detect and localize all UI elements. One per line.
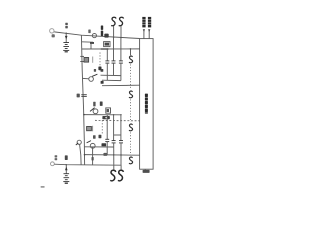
terminal T2 — [51, 162, 55, 166]
label Q11 (dark tall) — [101, 26, 103, 30]
wire V3 upper — [113, 37, 115, 61]
wavy bus dots 1 — [130, 65, 132, 89]
label 24b — [99, 135, 102, 139]
label B2b blob below H6 — [102, 116, 109, 119]
wire V3b — [113, 115, 115, 141]
label 22b — [101, 69, 104, 72]
label Q12 (dark blob above D1) — [104, 34, 108, 38]
wire V5 lower — [106, 63, 108, 80]
transistor Q5 — [93, 109, 98, 114]
dashed wire H7 repetition — [95, 119, 140, 121]
arrow Q7 — [76, 143, 78, 145]
label 14 (above battery 2 junction) — [65, 155, 68, 160]
wire H4 — [102, 79, 121, 81]
label 20 under U1 — [143, 170, 150, 173]
box D1 driver — [104, 42, 110, 47]
wire V4b lower — [120, 143, 122, 165]
node mark under Q1 — [90, 42, 94, 44]
wire battery 2 stub — [65, 165, 67, 174]
transistor Q8 — [90, 143, 95, 148]
battery BT1 — [63, 43, 69, 52]
junction blob on H9 — [103, 153, 107, 156]
capacitor C5 — [105, 61, 109, 63]
wire V5b upper — [106, 115, 108, 140]
capacitor C4 — [119, 141, 123, 143]
element right of B3 — [92, 126, 94, 132]
transistor Q2 — [89, 77, 94, 82]
label q8 blob — [102, 143, 107, 146]
page mark — [41, 186, 45, 188]
box B2 driver — [106, 108, 111, 113]
wire stub L4 — [120, 165, 122, 170]
arrow on battery 1 stub — [65, 36, 68, 40]
wire H4b — [82, 77, 89, 79]
label 21 — [88, 30, 90, 34]
wavy bus W2 curl — [129, 91, 133, 98]
arrow on battery 2 stub — [65, 167, 68, 171]
wire V3 lower — [113, 63, 115, 75]
label 12 (above battery 1 junction) — [65, 23, 68, 25]
wire H3 — [101, 74, 121, 76]
label VOUT1 — [142, 17, 145, 28]
wire stub VOUT1 — [143, 30, 145, 39]
wire stub to H2 — [90, 44, 92, 49]
wire V4 upper — [120, 38, 122, 61]
capacitor C2 — [119, 61, 123, 63]
wire H1 top rail — [54, 32, 139, 39]
tap ticks on rail — [81, 94, 87, 96]
wavy bus stub — [130, 49, 132, 55]
label 22a — [94, 69, 96, 72]
transistor Q1 — [92, 34, 96, 38]
label 32 (above T2) — [55, 155, 58, 157]
controller block U1 — [140, 39, 154, 170]
wire Q7 branch — [80, 144, 82, 164]
arrow diagonal Q2 — [92, 74, 97, 76]
small element right of B1 — [92, 57, 94, 63]
wire battery 1 stub — [65, 33, 67, 43]
wire V5b lower — [106, 142, 108, 155]
inductor L1 curl — [111, 17, 116, 26]
wire stub L2 — [120, 26, 122, 38]
wavy bus W4 curl — [129, 157, 133, 164]
label 26 tap — [77, 94, 80, 98]
wire stub L1 — [113, 26, 115, 37]
wire H9 to controller — [84, 154, 139, 157]
wire H6 — [84, 114, 121, 116]
node C junction dot — [66, 164, 67, 165]
arrow diagonal Q5 — [90, 108, 95, 112]
transistor Q7 — [77, 140, 81, 144]
label CONTROLLER (vertical smudge) — [145, 94, 148, 114]
wire Q8 source to H10 — [92, 147, 94, 165]
wire V5 upper — [106, 49, 108, 61]
wavy bus dots 2 — [130, 100, 132, 123]
wire H5 to controller — [102, 84, 140, 87]
inductor L3 curl — [110, 170, 116, 181]
ground stub under U1 — [144, 169, 146, 171]
inductor L4 curl — [118, 170, 124, 181]
label 23a — [93, 102, 95, 107]
wire H2 to controller — [82, 48, 140, 50]
wavy bus W1 curl — [129, 56, 133, 63]
label VOUT2 — [148, 17, 151, 28]
tick on rail lower — [80, 61, 84, 63]
wavy bus dots 3 — [130, 133, 132, 156]
arrow VOUT1 — [143, 29, 145, 32]
box B3 on rail — [87, 127, 92, 131]
wire gate stub from rail — [82, 41, 93, 43]
wavy bus W3 curl — [129, 124, 133, 131]
battery BT2 — [63, 174, 69, 184]
blob on Q8 source wire — [92, 157, 94, 161]
label 33 (dark blob) — [98, 67, 101, 71]
inductor L2 curl — [119, 17, 124, 26]
wire stub VOUT2 — [148, 30, 150, 39]
label in D1 — [105, 43, 109, 46]
wire V4 lower — [120, 63, 122, 81]
dashed repetition stub lower — [101, 120, 103, 134]
label 24a — [93, 135, 96, 139]
wire H8b — [84, 146, 113, 148]
arrow VOUT2 — [148, 29, 150, 32]
capacitor C6 — [105, 139, 109, 141]
label q2 blob — [101, 81, 104, 84]
wire left rail V2 — [81, 35, 84, 165]
wire V4b — [120, 115, 122, 141]
wire H10 bottom rail — [54, 164, 121, 165]
tick on rail upper — [80, 55, 84, 57]
arrow diagonal Q8 — [87, 141, 91, 143]
node A junction dot — [66, 33, 67, 34]
capacitor C3 — [112, 141, 116, 143]
capacitor C1 — [112, 61, 116, 63]
wire V3b lower — [113, 143, 115, 165]
box B1 on rail — [84, 58, 89, 63]
label in B2 — [107, 109, 109, 112]
wire H8 bridge — [114, 134, 121, 136]
wire stub L3 — [113, 165, 115, 170]
label 31 (under T1) — [52, 34, 55, 37]
terminal T1 — [50, 29, 54, 33]
label 23b — [100, 102, 103, 106]
dashed repetition stub — [99, 53, 101, 67]
